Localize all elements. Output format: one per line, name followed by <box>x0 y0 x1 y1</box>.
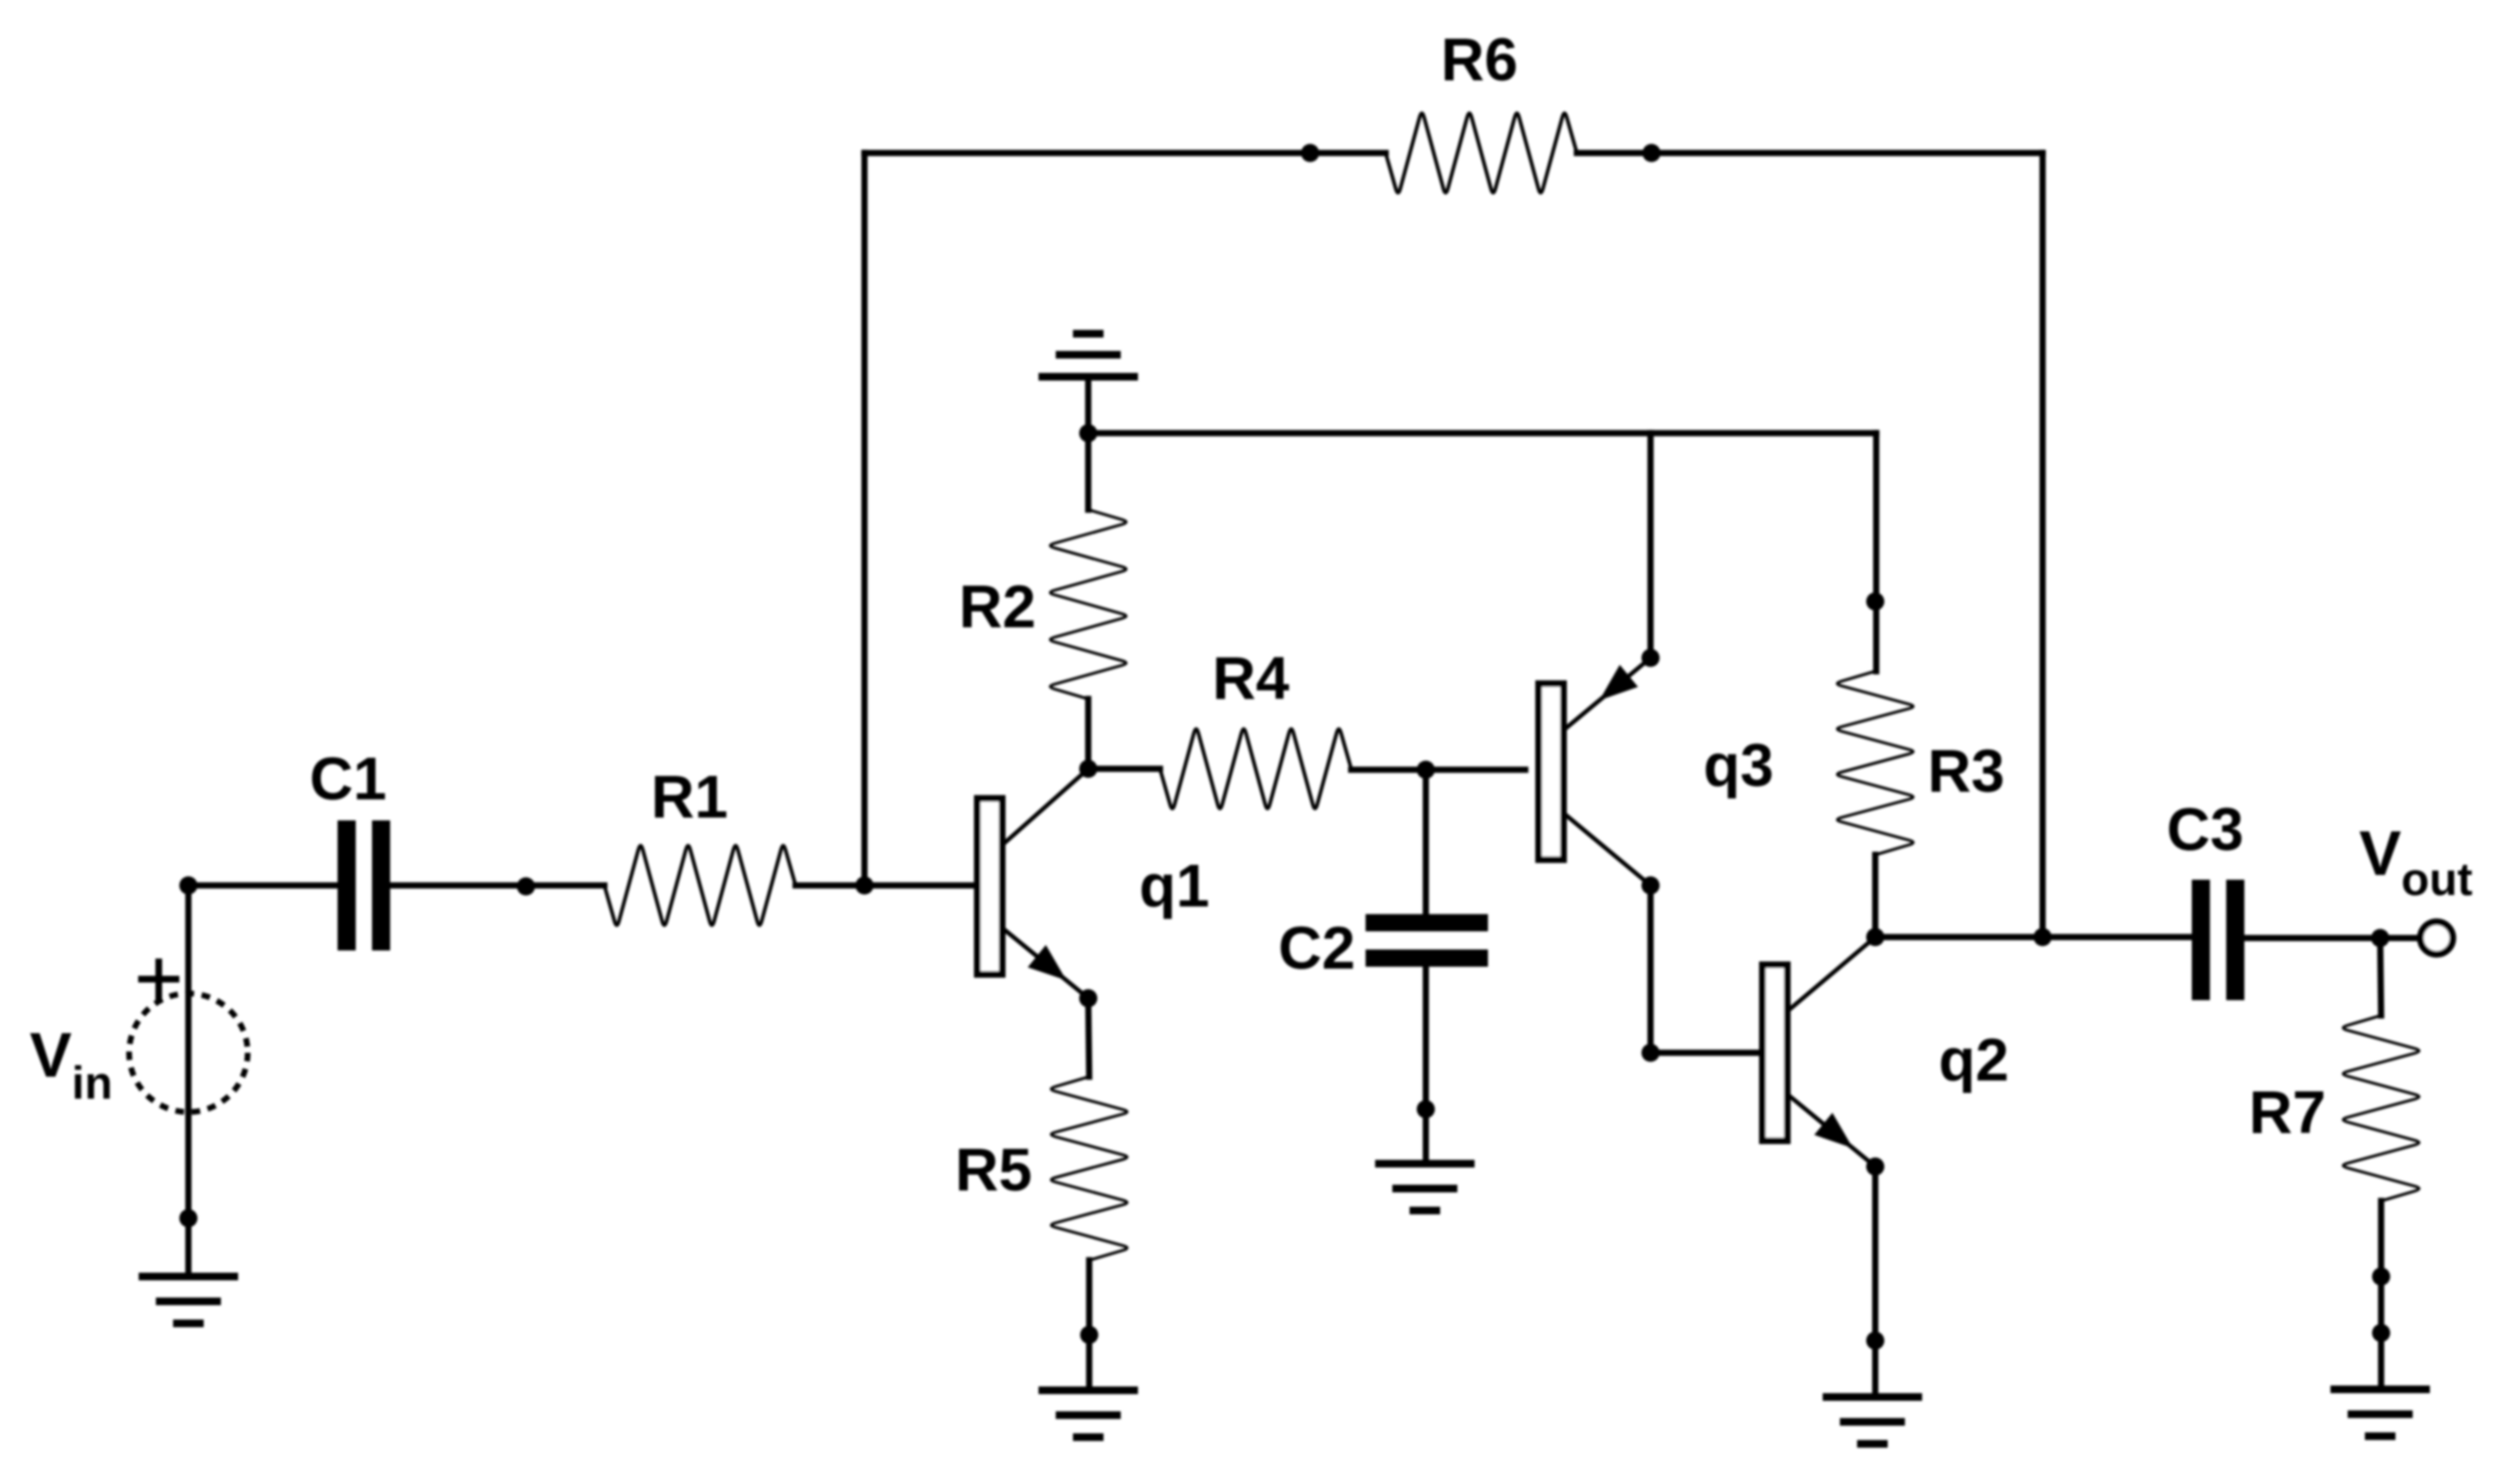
svg-text:R3: R3 <box>1928 738 2005 805</box>
wire output row <box>1875 934 2192 941</box>
node after C1 <box>517 878 536 896</box>
ground R5 <box>1042 1390 1134 1437</box>
ground Vin <box>142 1277 234 1323</box>
resistor R1 <box>604 764 796 926</box>
power rail symbol (inverted ground) <box>1042 334 1134 377</box>
resistor R6 <box>1386 27 1577 193</box>
node R6 right <box>1643 144 1661 163</box>
node Vin bottom <box>180 1210 198 1228</box>
ground C2 <box>1379 1164 1471 1211</box>
svg-text:Vout: Vout <box>2359 818 2473 906</box>
node above R5 ground <box>1081 1326 1099 1344</box>
svg-text:R7: R7 <box>2249 1080 2327 1146</box>
resistor R7 <box>2249 1015 2419 1201</box>
wire C3 to Vout <box>2244 935 2419 942</box>
svg-text:R5: R5 <box>955 1137 1033 1204</box>
wire top rail left <box>864 150 1386 157</box>
node q3 collector <box>1642 877 1660 895</box>
wire q2 emitter down <box>1872 1167 1879 1397</box>
wire R7 to ground <box>2378 1201 2385 1389</box>
output terminal Vout <box>2359 818 2473 954</box>
wire R2 to q1 collector node <box>1085 699 1092 769</box>
capacitor C3 <box>2167 797 2244 1000</box>
wire q3 base <box>1426 767 1525 774</box>
node R6 left <box>1301 144 1320 163</box>
capacitor C1 <box>310 746 390 950</box>
ground R7 <box>2334 1389 2426 1436</box>
wire feedback left vertical <box>862 153 868 885</box>
wire rail corner down to R3 <box>1873 433 1880 671</box>
resistor R5 <box>955 1077 1127 1260</box>
node q3 emitter <box>1642 649 1660 667</box>
node q2 emitter <box>1867 1158 1885 1176</box>
wire Vin vertical <box>186 885 192 1277</box>
transistor q3 <box>1539 658 1774 885</box>
node power rail <box>1080 425 1098 443</box>
wire R5 to ground <box>1086 1260 1093 1390</box>
svg-text:R1: R1 <box>651 764 729 831</box>
wire q3 collector down <box>1648 885 1654 1053</box>
svg-text:R6: R6 <box>1441 27 1519 94</box>
wire R4 to q3 base node <box>1351 767 1426 774</box>
svg-text:C2: C2 <box>1279 915 1356 982</box>
transistor q1 <box>977 769 1210 998</box>
node q2 collector / output <box>1867 928 1885 947</box>
svg-text:R4: R4 <box>1213 645 1290 712</box>
wire q1 collector to R4 <box>1088 766 1160 773</box>
resistor R3 <box>1837 671 2004 855</box>
wire power symbol to rail node <box>1085 377 1092 433</box>
node q1 collector <box>1080 760 1098 778</box>
node below C2 <box>1417 1101 1435 1119</box>
resistor R2 <box>959 510 1126 699</box>
node q2 base <box>1642 1044 1660 1062</box>
wire power rail horizontal <box>1088 430 1876 437</box>
capacitor C2 <box>1279 914 1488 982</box>
svg-text:C1: C1 <box>310 746 387 813</box>
node above q2 ground <box>1867 1332 1885 1350</box>
wire Vout node to R7 <box>2380 938 2381 1015</box>
ground q2 <box>1826 1397 1918 1444</box>
wire q3 base node to C2 <box>1423 770 1430 914</box>
svg-text:q2: q2 <box>1938 1027 2009 1094</box>
wire top rail right <box>1577 150 2043 157</box>
node q1 base / feedback <box>856 877 874 895</box>
node R7 dot 1 <box>2373 1268 2391 1286</box>
node q3 base / C2 <box>1417 761 1435 779</box>
node feedback/output junction <box>2034 928 2052 947</box>
wire q3 emitter up to rail <box>1648 433 1654 658</box>
node R3 top <box>1867 593 1885 611</box>
svg-text:R2: R2 <box>959 574 1037 641</box>
svg-text:Vin: Vin <box>30 1019 113 1109</box>
wire C1 to R1 <box>390 883 604 889</box>
transistor q2 <box>1762 937 2009 1167</box>
wire Vin node to C1 <box>188 883 338 889</box>
resistor R4 <box>1160 645 1351 809</box>
node q1 emitter <box>1080 990 1098 1008</box>
svg-text:C3: C3 <box>2167 797 2244 863</box>
node R7 dot 2 <box>2373 1324 2391 1342</box>
voltage source Vin <box>30 962 248 1112</box>
node Vin top <box>180 877 198 895</box>
wire R3 to output node <box>1872 855 1879 937</box>
wire rail to R2 <box>1085 433 1092 510</box>
wire R1 to q1 base node <box>796 883 974 889</box>
wire q1 emitter to R5 <box>1088 998 1089 1077</box>
wire feedback right vertical <box>2040 153 2046 937</box>
node Vout <box>2372 929 2390 948</box>
svg-text:q1: q1 <box>1139 853 1210 920</box>
wire q2 base <box>1651 1050 1762 1057</box>
wire C2 to ground <box>1423 967 1430 1164</box>
svg-text:q3: q3 <box>1703 732 1774 799</box>
